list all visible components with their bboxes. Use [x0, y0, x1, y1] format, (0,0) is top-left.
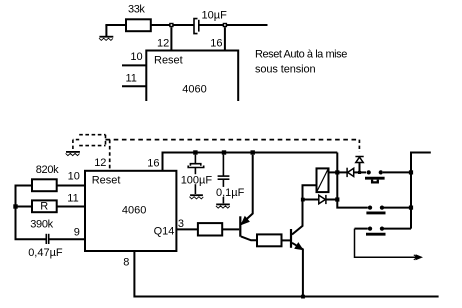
junction +V rail / 100uF [193, 150, 197, 154]
diode D4 (from pin12 dashed, cathode up) [355, 157, 363, 173]
svg-text:100µF: 100µF [181, 174, 213, 186]
flyback diode D2 [303, 195, 338, 204]
label 0,1uF [216, 187, 244, 197]
resistor R4 (base Q2) [257, 234, 282, 246]
svg-text:11: 11 [126, 73, 137, 85]
capacitor 0,1uF [218, 155, 230, 204]
capacitor 10uF [194, 19, 199, 34]
svg-text:9: 9 [74, 227, 80, 239]
dashed wire to ground [73, 139, 79, 141]
dashed wire pin 12 [109, 140, 111, 171]
relay coil RL1 [317, 168, 338, 192]
relay contact K1 (row 2) [366, 205, 411, 212]
svg-text:Q14: Q14 [154, 225, 175, 237]
svg-text:12: 12 [157, 37, 169, 49]
svg-text:sous tension: sous tension [255, 64, 316, 76]
wire pin16 to +V rail [163, 153, 338, 171]
svg-text:16: 16 [147, 158, 159, 170]
ground 0,1uF [216, 204, 230, 208]
svg-text:Reset: Reset [154, 54, 183, 66]
transistor Q2 (NPN) [291, 185, 317, 296]
ground 100uF [189, 195, 203, 199]
node (junction, open square) at pin16 [223, 24, 226, 27]
junction diode/button [358, 171, 361, 174]
junction on bus [13, 204, 17, 208]
wire resistor to capacitor [151, 24, 194, 26]
svg-text:Reset: Reset [92, 175, 121, 187]
wire ground to resistor 33k [105, 24, 126, 26]
svg-text:8: 8 [123, 256, 129, 268]
svg-text:10µF: 10µF [202, 10, 228, 22]
svg-text:3: 3 [178, 218, 184, 230]
wire pin 8 to bottom rail [134, 251, 438, 297]
svg-text:16: 16 [210, 37, 222, 49]
capacitor 100uF [188, 155, 204, 194]
wire pin 16 [224, 27, 226, 50]
main right vertical from +V [337, 153, 368, 208]
push button BP (row 1) [365, 170, 411, 182]
junction Q2 collector / flyback diode [301, 198, 305, 202]
svg-text:R: R [40, 200, 48, 212]
node (junction, open square) at pin12 [170, 24, 173, 27]
output wire with arrow [355, 229, 424, 261]
capacitor 0,47uF [46, 234, 48, 244]
junction Q2 emitter / bottom rail [301, 295, 305, 299]
junction row1/right rail [409, 170, 413, 174]
dashed resistor (optional) [79, 135, 105, 146]
junction relay top [335, 170, 339, 174]
dashed rail pin12 to reset button [106, 139, 360, 141]
left bus wire [16, 186, 47, 240]
junction +V rail / Q1 emitter [251, 150, 255, 154]
resistor R [32, 200, 57, 212]
pin 10 stub [122, 64, 146, 66]
svg-text:390k: 390k [30, 219, 53, 231]
right vertical rail + top stub [411, 153, 431, 229]
ground (top-left) [99, 25, 113, 40]
svg-text:12: 12 [94, 157, 106, 169]
resistor R3 (base Q1) [198, 223, 222, 235]
junction flyback cathode [335, 197, 339, 201]
svg-text:4060: 4060 [182, 84, 206, 96]
svg-text:10: 10 [130, 51, 142, 63]
svg-text:0,1µF: 0,1µF [216, 187, 245, 199]
svg-text:10: 10 [68, 171, 80, 183]
wire pin3 to R3 [176, 228, 198, 230]
svg-text:0,47µF: 0,47µF [28, 247, 63, 259]
IC U2 4060 (bottom) [85, 171, 176, 251]
svg-text:Reset Auto à la mise: Reset Auto à la mise [255, 49, 347, 61]
wire pin 11 [16, 206, 33, 208]
svg-text:820k: 820k [36, 164, 59, 176]
resistor 33k [126, 19, 151, 31]
wire pin 12 [170, 27, 172, 50]
diode D3 (button to relay, cathode left) [337, 168, 366, 177]
svg-text:4060: 4060 [122, 205, 146, 217]
ground (dashed box) [66, 152, 80, 156]
dashed wire to diode [358, 140, 360, 152]
svg-text:11: 11 [67, 192, 78, 204]
junction +V rail / 0,1uF [222, 150, 226, 154]
transistor Q1 (PNP) [240, 155, 257, 241]
label 100uF [180, 174, 211, 184]
pin 11 stub [122, 85, 146, 87]
wire pin 10 [57, 185, 85, 187]
wire capacitor to right end [199, 24, 268, 26]
relay contact K2 (row 3) [355, 226, 412, 234]
svg-text:33k: 33k [128, 3, 145, 15]
junction row2/right rail [409, 206, 413, 210]
IC U1 4060 (top, open-bottom box) [146, 51, 238, 102]
resistor 820k [32, 179, 57, 191]
